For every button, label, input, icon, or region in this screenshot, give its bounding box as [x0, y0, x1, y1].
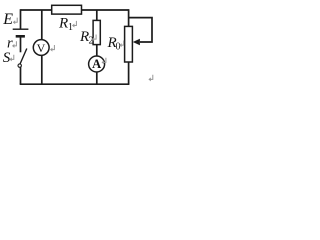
- wiper arrowhead: [133, 39, 140, 45]
- resistor R2: [93, 20, 100, 44]
- label R2: [79, 29, 96, 47]
- resistor R0: [125, 26, 133, 62]
- svg-text:0: 0: [116, 42, 121, 53]
- wire ammeter to bottom: [96, 72, 98, 84]
- battery E r: [13, 29, 29, 36]
- wire top: [21, 9, 129, 11]
- label E: [2, 11, 17, 28]
- svg-text:2: 2: [89, 36, 94, 47]
- wire right branch upper: [128, 9, 130, 26]
- svg-text:V: V: [37, 41, 46, 55]
- svg-text:R: R: [58, 16, 68, 32]
- wire voltmeter branch upper: [41, 10, 43, 40]
- label R0: [107, 35, 124, 53]
- wire battery to switch: [20, 37, 22, 52]
- voltmeter V: [33, 40, 49, 56]
- svg-text:S: S: [3, 50, 11, 66]
- return mark right of voltmeter: [50, 45, 54, 52]
- label R1: [58, 16, 76, 34]
- label S: [3, 50, 14, 66]
- wire R2 to ammeter: [96, 45, 98, 57]
- wire voltmeter branch lower: [41, 55, 43, 84]
- switch S: [18, 49, 27, 68]
- wiper wire of R0: [129, 18, 152, 42]
- wire bottom: [20, 83, 130, 85]
- wire R2 branch upper: [96, 10, 98, 20]
- return mark bottom right: [148, 75, 152, 82]
- svg-text:E: E: [2, 11, 13, 28]
- wire right branch lower: [128, 62, 130, 84]
- return mark right of ammeter: [102, 58, 106, 65]
- label r: [7, 36, 16, 52]
- svg-text:A: A: [92, 57, 101, 71]
- ammeter A: [89, 56, 105, 72]
- resistor R1: [52, 5, 82, 14]
- svg-text:1: 1: [68, 22, 73, 33]
- wire left lower: [20, 67, 22, 84]
- wire left upper: [20, 9, 22, 29]
